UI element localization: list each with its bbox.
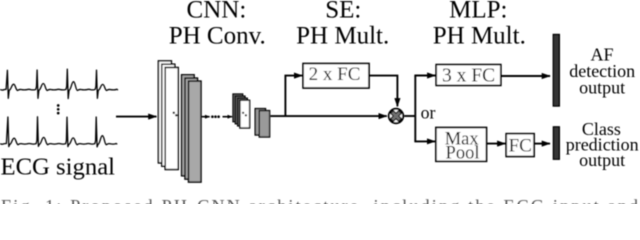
svg-text:or: or — [421, 103, 436, 123]
conv layer gray sheet 1 — [182, 75, 195, 176]
wire: riser to 2xFC — [285, 76, 302, 117]
small conv sheet white front — [240, 100, 250, 128]
multiplier circle — [389, 109, 403, 123]
wire: 3xFC to AF bar — [501, 75, 550, 77]
wire: FC to class bar — [534, 143, 550, 145]
conv layer gray sheet 3 — [189, 81, 202, 182]
ECG trace 2 — [1, 117, 117, 147]
wire: conv output to multiplier — [271, 115, 387, 117]
svg-text:3 x FC: 3 x FC — [442, 65, 495, 86]
small conv sheet dark 3 — [238, 98, 248, 126]
wire: branch vertical — [414, 76, 416, 142]
conv layer gray sheet 2 — [185, 78, 198, 179]
wire: dotted continuation arrow — [202, 116, 210, 118]
AF output bar — [553, 35, 559, 107]
conv layer white sheet 1 — [158, 61, 171, 163]
small gray sheet back — [255, 109, 265, 135]
ellipsis dots inside conv group A — [173, 112, 175, 114]
ECG trace 1 — [1, 69, 118, 98]
vertical ellipsis dots — [57, 104, 60, 107]
class output bar — [553, 127, 559, 159]
svg-text:Pool: Pool — [446, 144, 480, 164]
svg-text:output: output — [579, 150, 625, 170]
box 3 x FC — [436, 65, 501, 86]
wire: multiplier to branch — [404, 115, 415, 117]
wire: 2xFC down to multiplier — [369, 76, 397, 107]
svg-text:PH Mult.: PH Mult. — [296, 22, 389, 49]
svg-text:SE:: SE: — [325, 0, 361, 23]
ellipsis dots inside small stack — [242, 112, 244, 114]
svg-text:Fig. 1: Proposed PH-CNN archit: Fig. 1: Proposed PH-CNN architecture, in… — [1, 196, 638, 204]
svg-text:PH Mult.: PH Mult. — [433, 22, 526, 49]
svg-text:CNN:: CNN: — [187, 0, 247, 23]
conv layer white sheet 2 — [162, 64, 175, 166]
box FC — [506, 134, 534, 157]
wire: branch to MaxPool — [414, 140, 435, 142]
wire: branch to 3xFC — [414, 75, 435, 77]
svg-text:FC: FC — [509, 135, 532, 156]
box Max Pool — [436, 128, 487, 162]
svg-text:MLP:: MLP: — [449, 0, 507, 23]
svg-text:PH Conv.: PH Conv. — [169, 22, 266, 49]
svg-text:ECG signal: ECG signal — [1, 153, 116, 180]
svg-text:2 x FC: 2 x FC — [309, 64, 361, 85]
small gray sheet front — [259, 111, 269, 137]
svg-text:output: output — [579, 77, 625, 97]
wire: input arrow — [116, 116, 157, 118]
small conv sheet dark 2 — [235, 96, 245, 124]
box 2 x FC — [303, 64, 369, 89]
wire: MaxPool to FC — [487, 143, 506, 145]
conv layer white sheet 3 — [165, 68, 178, 170]
small conv sheet dark 1 — [233, 94, 243, 122]
